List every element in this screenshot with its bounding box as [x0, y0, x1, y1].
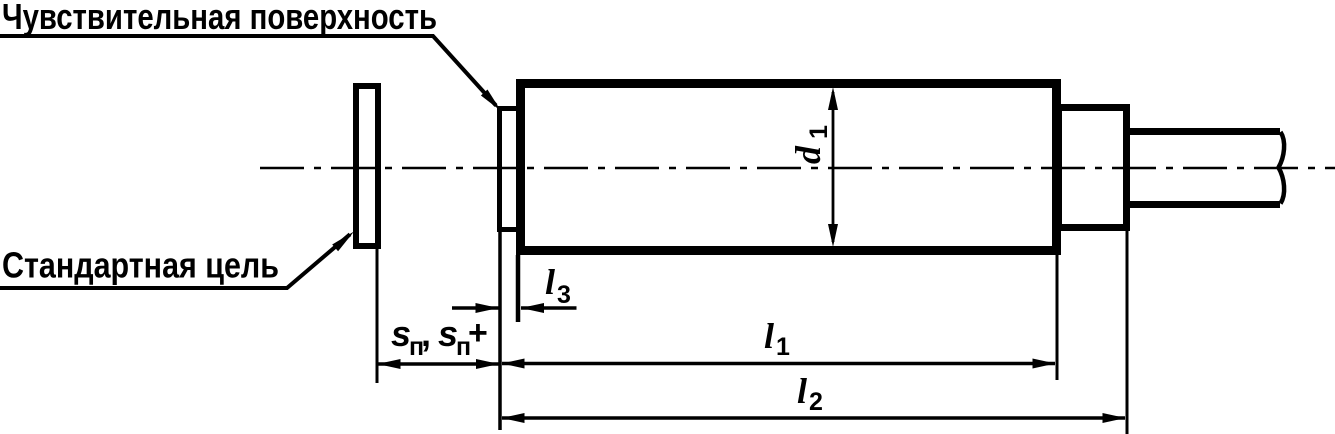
svg-text:l: l — [764, 316, 774, 356]
svg-text:1: 1 — [776, 333, 790, 361]
svg-text:1: 1 — [805, 125, 833, 139]
svg-text:d: d — [788, 145, 828, 164]
svg-text:,: , — [421, 313, 431, 354]
svg-text:+: + — [468, 314, 488, 352]
svg-text:3: 3 — [557, 281, 571, 309]
svg-text:2: 2 — [809, 388, 823, 416]
svg-text:l: l — [545, 262, 555, 302]
svg-text:Чувствительная поверхность: Чувствительная поверхность — [2, 0, 437, 37]
svg-text:l: l — [797, 371, 807, 411]
svg-text:Стандартная цель: Стандартная цель — [2, 245, 279, 286]
